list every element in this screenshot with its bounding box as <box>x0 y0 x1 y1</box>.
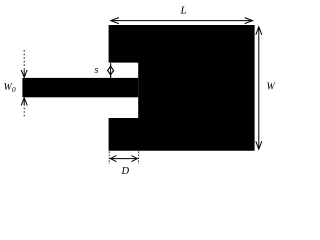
svg-text:W0: W0 <box>4 82 16 94</box>
extension line right (dotted, below patch at notch right) <box>138 152 140 165</box>
dimension arrow D (horizontal, below patch) <box>110 156 137 162</box>
dimension arrow s (small vertical double arrow in notch gap) <box>108 63 114 78</box>
dimension arrow W0 upper (points down to feed top, dashed tail) <box>21 50 27 77</box>
svg-text:W: W <box>267 82 277 93</box>
svg-text:D: D <box>121 166 130 177</box>
feed line (microstrip inset feed) <box>22 78 138 97</box>
dimension arrow L (horizontal, above patch) <box>111 18 253 24</box>
dimension arrow W0 lower (points up to feed bottom, dashed tail) <box>21 98 27 118</box>
patch (rectangular radiating patch with inset notch) <box>109 25 255 151</box>
svg-text:s: s <box>95 65 99 76</box>
svg-text:L: L <box>180 5 187 17</box>
dimension arrow W (vertical, right of patch) <box>256 27 262 149</box>
extension line left (dotted, below patch at notch left) <box>108 152 110 165</box>
